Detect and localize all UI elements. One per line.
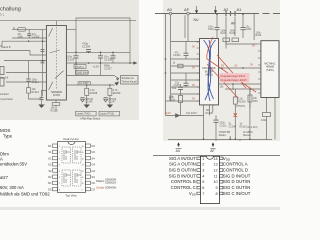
- svg-text:SIG B OUT/IN: SIG B OUT/IN: [169, 168, 196, 173]
- wire box to x76: [66, 28, 76, 30]
- vertical drop x226: [225, 17, 227, 49]
- diode D mid: [176, 114, 180, 118]
- boxed value label 3: [78, 82, 91, 85]
- svg-text:R1312: R1312: [32, 91, 40, 94]
- svg-text:(Hand B: (Hand B: [1, 45, 11, 49]
- bottom scan band: [0, 207, 280, 210]
- svg-text:S3: S3: [92, 175, 96, 179]
- boxed value label 1: [74, 65, 86, 69]
- svg-text:2: 2: [59, 152, 60, 154]
- right scan gray block: [163, 0, 280, 141]
- svg-text:schaltet: schaltet: [0, 93, 9, 96]
- svg-text:C1247: C1247: [109, 100, 117, 103]
- svg-text:AF: AF: [231, 22, 235, 26]
- svg-text:C250: C250: [246, 28, 252, 31]
- svg-text:VSS: VSS: [189, 191, 196, 197]
- svg-text:(Koa 924): (Koa 924): [247, 126, 258, 129]
- pin numbers right: [213, 157, 217, 196]
- notch: [68, 142, 75, 145]
- svg-text:10: 10: [213, 180, 217, 184]
- red OV labels: [192, 46, 195, 101]
- svg-text:C1304: C1304: [82, 45, 91, 49]
- capacitor C105: [185, 73, 187, 83]
- svg-text:0V: 0V: [192, 46, 195, 49]
- svg-text:4: 4: [202, 174, 204, 178]
- svg-text:5: 5: [202, 180, 204, 184]
- svg-text:D4: D4: [92, 144, 96, 148]
- package body: [58, 142, 86, 193]
- svg-text:AF: AF: [184, 7, 190, 12]
- capacitor on G3 wire: [40, 97, 44, 99]
- frame left vertical: [165, 14, 167, 116]
- svg-text:D3: D3: [48, 187, 52, 191]
- vertical x233: [232, 84, 234, 90]
- capacitor 100n top: [215, 27, 220, 29]
- switch S1 in U1: [49, 28, 53, 37]
- DIP pins left: [53, 144, 91, 191]
- svg-text:Top View: Top View: [65, 194, 77, 198]
- svg-text:SIG C IN/OUT: SIG C IN/OUT: [223, 191, 251, 196]
- svg-text:MOS: MOS: [0, 128, 10, 133]
- svg-text:R107: R107: [191, 112, 198, 115]
- svg-text:A0: A0: [167, 7, 173, 12]
- svg-text:R1309: R1309: [238, 100, 246, 103]
- bottom rail: [168, 139, 272, 141]
- svg-text:+12V: +12V: [93, 65, 100, 69]
- junction dots bottom rail: [203, 138, 251, 140]
- arrow NU: [196, 6, 198, 11]
- wire y41.4 to U2: [171, 40, 200, 42]
- pinout notch: [206, 156, 213, 159]
- svg-text:47u/6,3: 47u/6,3: [75, 65, 84, 69]
- timbre label box: [121, 76, 139, 85]
- svg-text:D1: D1: [48, 144, 52, 148]
- separator rule: [153, 155, 280, 157]
- resistor R106: [179, 95, 183, 102]
- svg-text:G4: G4: [92, 163, 96, 167]
- svg-text:R2398: R2398: [90, 91, 98, 95]
- svg-text:NC: NC: [48, 181, 52, 185]
- svg-text:7: 7: [202, 192, 204, 196]
- capacitor C1247: [104, 98, 108, 102]
- svg-text:12: 12: [82, 171, 84, 173]
- wire top input: [12, 28, 46, 30]
- svg-text:4: 4: [59, 165, 60, 167]
- svg-text:(74HC): (74HC): [266, 69, 274, 72]
- svg-text:15: 15: [82, 152, 84, 154]
- svg-text:entdioden:35V: entdioden:35V: [0, 161, 27, 166]
- capacitor C1302: [28, 29, 30, 33]
- svg-text:+Flip-Flop Modul: +Flip-Flop Modul: [80, 117, 100, 121]
- svg-text:D2: D2: [48, 175, 52, 179]
- svg-text:SIG D IN/OUT: SIG D IN/OUT: [223, 173, 251, 178]
- svg-text:9: 9: [215, 186, 217, 190]
- resistor mid 2: [232, 38, 239, 42]
- svg-text:(4066): (4066): [205, 74, 212, 77]
- svg-text:5: 5: [59, 171, 60, 173]
- AX arrow: [177, 142, 180, 145]
- svg-text:R247: R247: [221, 32, 227, 35]
- svg-text:R1310: R1310: [51, 109, 59, 112]
- wire vertical bus: [42, 30, 44, 97]
- wire U3 bottom: [249, 89, 251, 140]
- resistor R1309 col: [233, 97, 237, 104]
- node dots right schematic: [165, 13, 244, 74]
- svg-text:A1: A1: [237, 7, 243, 12]
- svg-text:7: 7: [59, 183, 60, 185]
- svg-text:0V: 0V: [235, 65, 238, 68]
- node dots left schematic: [28, 40, 131, 85]
- capacitor 10u top: [241, 27, 246, 29]
- wire U1 bottom: [55, 100, 57, 103]
- svg-text:8: 8: [215, 192, 217, 196]
- DIP internal fets: [62, 147, 81, 186]
- svg-text:CONTROL D: CONTROL D: [223, 168, 248, 173]
- page background: [0, 0, 280, 210]
- AF arrow: [212, 142, 215, 145]
- red diode: [233, 113, 237, 116]
- svg-text:G3: G3: [92, 169, 96, 173]
- left bus vertical: [170, 41, 172, 101]
- svg-text:NC: NC: [92, 150, 96, 154]
- left scan gray block: [0, 0, 139, 120]
- capacitor C1305: [98, 55, 103, 57]
- svg-text:CONTROL A: CONTROL A: [223, 162, 248, 167]
- rail 3: [66, 84, 114, 86]
- wires into U3 top: [226, 42, 258, 44]
- vertical drop x217: [216, 14, 218, 27]
- arrow AF mid: [215, 6, 217, 11]
- vertical drop x243: [242, 14, 244, 27]
- wire input row5: [4, 60, 46, 62]
- pinout IC body U4: [200, 156, 219, 203]
- wire input row2: [12, 37, 47, 39]
- svg-text:S1: S1: [48, 150, 52, 154]
- wire top bend: [76, 18, 130, 63]
- svg-text:Lautst./TV(2): Lautst./TV(2): [100, 113, 114, 116]
- svg-text:OTM/TS: OTM/TS: [236, 105, 245, 108]
- svg-text:Cerdip: Cerdip: [96, 186, 105, 190]
- svg-text:9: 9: [82, 189, 83, 191]
- svg-text:C1246: C1246: [85, 100, 93, 103]
- rail A right of U1: [66, 51, 130, 53]
- svg-text:C1248: C1248: [229, 125, 237, 128]
- svg-text:S2: S2: [48, 169, 52, 173]
- svg-text:atz7: atz7: [0, 175, 9, 180]
- svg-text:NU: NU: [194, 18, 199, 22]
- wire to ground G3: [42, 91, 47, 98]
- svg-text:13: 13: [213, 163, 217, 167]
- svg-text:Timbre-Kanal: Timbre-Kanal: [122, 80, 137, 83]
- svg-text:0V: 0V: [192, 84, 195, 87]
- svg-text:Doppelanzeige SW-A: Doppelanzeige SW-A: [221, 74, 246, 78]
- wire x254: [253, 14, 255, 41]
- svg-text:D3: D3: [92, 187, 96, 191]
- svg-text:C1305: C1305: [104, 58, 113, 62]
- vertical x250: [249, 89, 251, 95]
- U3 pin stubs: [258, 43, 261, 45]
- svg-text:R1308: R1308: [206, 112, 214, 115]
- svg-text:0V: 0V: [221, 65, 224, 68]
- top rail: [155, 13, 252, 15]
- rail B right of U1: [66, 62, 134, 64]
- DIP pins right: [86, 144, 91, 147]
- capacitor C1246: [81, 98, 85, 102]
- svg-text:14: 14: [82, 158, 84, 160]
- svg-text:SIG A OUT/IN: SIG A OUT/IN: [169, 162, 196, 167]
- vertical drop x235: [234, 17, 236, 37]
- capacitor on bus 2: [41, 60, 45, 62]
- DIP pin labels left: [48, 144, 52, 191]
- svg-text:10: 10: [82, 183, 84, 185]
- svg-text:SMD 94V-0: SMD 94V-0: [77, 71, 90, 74]
- tick marks: [225, 11, 227, 16]
- pin stubs table: [197, 157, 223, 195]
- svg-text:R106: R106: [169, 98, 176, 101]
- svg-text:0V: 0V: [252, 45, 255, 48]
- wire input row3: [2, 40, 47, 42]
- svg-text:SIG C OUT/IN: SIG C OUT/IN: [223, 185, 250, 190]
- red signal lines: [207, 37, 256, 98]
- svg-text:16: 16: [82, 146, 84, 148]
- svg-text:2: 2: [202, 163, 204, 167]
- resistor mid 1: [223, 38, 230, 42]
- svg-text:DI DN: DI DN: [53, 94, 60, 97]
- wire rail drop 1: [75, 63, 77, 76]
- capacitor on bus: [41, 49, 45, 51]
- svg-text:Stereo: Stereo: [243, 134, 251, 137]
- svg-text:G2: G2: [48, 163, 52, 167]
- ground G1: [84, 105, 90, 109]
- svg-text:1 L: 1 L: [0, 13, 5, 17]
- op IC U1 box SD5000: [46, 26, 66, 101]
- wire input row4: [0, 51, 47, 56]
- wire from A0 circle: [170, 15, 172, 42]
- svg-text:3: 3: [202, 169, 204, 173]
- DIP pin labels right: [92, 144, 96, 191]
- inductor L top: [18, 28, 27, 32]
- svg-text:NC: NC: [92, 181, 96, 185]
- svg-text:VDD: VDD: [223, 156, 231, 162]
- U2 pin wires: [171, 58, 200, 60]
- wire left stub: [0, 41, 2, 46]
- cap 220n C1311: [215, 116, 217, 120]
- connector stub box1: [0, 67, 4, 75]
- capacitor C1304: [86, 49, 91, 51]
- junction dots mid: [221, 67, 251, 90]
- resistor R1310: [52, 103, 60, 106]
- wire y68: [219, 67, 261, 69]
- svg-text:R248: R248: [230, 32, 236, 35]
- wire input row7: [6, 81, 47, 83]
- svg-text:SIG B IN/OUT: SIG B IN/OUT: [169, 173, 197, 178]
- svg-text:SIG A IN/OUT: SIG A IN/OUT: [169, 156, 196, 161]
- svg-text:CONTROL B: CONTROL B: [171, 179, 196, 184]
- capacitor C1303: [74, 55, 79, 57]
- svg-text:Modul: Modul: [219, 134, 226, 137]
- svg-text:Plastic: Plastic: [96, 179, 105, 183]
- svg-text:0V: 0V: [192, 98, 195, 101]
- wire y89: [225, 88, 261, 90]
- U3 IC box 74HC4066: [261, 41, 279, 98]
- svg-text:C1311: C1311: [220, 124, 228, 127]
- svg-text:0V: 0V: [192, 67, 195, 70]
- svg-text:60V, 300 mA: 60V, 300 mA: [0, 185, 24, 190]
- svg-text:C246: C246: [208, 28, 214, 31]
- svg-text:f geschaltet: f geschaltet: [0, 98, 13, 101]
- svg-text:13: 13: [82, 165, 84, 167]
- svg-text:AF: AF: [210, 149, 214, 153]
- svg-text:Dual-In-Line: Dual-In-Line: [63, 137, 79, 141]
- U2 IC box MC14066: [200, 39, 219, 105]
- svg-text:1: 1: [202, 157, 204, 161]
- svg-text:S4: S4: [92, 156, 96, 160]
- svg-text:11: 11: [82, 177, 84, 179]
- vertical from AF: [184, 15, 186, 38]
- svg-text:R2399: R2399: [113, 91, 121, 95]
- chain x28.5: cap + resistor to ground: [28, 61, 30, 79]
- capacitor 10u left mid: [178, 86, 183, 88]
- boxed value label 2: [76, 71, 89, 75]
- resistor below U3: [263, 113, 271, 117]
- wire input row6: [6, 72, 47, 74]
- resistor R2398: [85, 88, 89, 95]
- label box bottom 1: [76, 111, 97, 116]
- svg-text:Lautst./TV(1): Lautst./TV(1): [77, 113, 91, 116]
- U2 bottom wires: [203, 105, 205, 140]
- svg-text:C1307: C1307: [104, 66, 112, 70]
- svg-text:Doppelanzeige LED-Pr: Doppelanzeige LED-Pr: [221, 78, 248, 82]
- svg-text:A2: A2: [224, 7, 230, 12]
- svg-text:hältlich als SMD und TO92: hältlich als SMD und TO92: [0, 192, 50, 197]
- svg-text:C1304: C1304: [173, 54, 181, 57]
- svg-text:SD5001N: SD5001N: [105, 181, 116, 185]
- switch S3 in U1: [55, 71, 64, 79]
- U2 pin stubs: [197, 42, 261, 101]
- svg-text:6: 6: [202, 186, 204, 190]
- connector stub box2: [0, 78, 4, 86]
- svg-text:8: 8: [59, 189, 60, 191]
- svg-text:100n: 100n: [18, 36, 24, 39]
- red 0V labels mid: [221, 64, 253, 68]
- svg-text:100k: 100k: [261, 119, 267, 122]
- wire mid horizontal: [166, 115, 204, 117]
- svg-text:1: 1: [59, 146, 60, 148]
- resistor on y66: [178, 64, 183, 68]
- svg-text:R249: R249: [256, 34, 262, 37]
- svg-text:12: 12: [213, 169, 217, 173]
- svg-text:Type: Type: [3, 134, 13, 139]
- svg-text:G1: G1: [48, 156, 52, 160]
- DIP pin numbers inside: [59, 146, 84, 191]
- svg-text:10u: 10u: [172, 87, 177, 90]
- svg-text:14: 14: [213, 157, 217, 161]
- node circle A0: [169, 12, 172, 15]
- svg-text:AX: AX: [176, 149, 181, 153]
- resistor R2399: [108, 88, 112, 95]
- svg-text:C1314: C1314: [32, 81, 40, 84]
- pink highlight label: [220, 73, 250, 83]
- rail 2: [66, 75, 114, 77]
- svg-text:SD5000: SD5000: [51, 90, 62, 94]
- blue signal curves: [204, 40, 216, 101]
- svg-text:+12V: +12V: [165, 111, 171, 115]
- wire rail drop 2: [100, 63, 102, 76]
- wires between U2 and U3: [219, 68, 261, 108]
- wire right frame: [274, 98, 276, 140]
- svg-text:0V: 0V: [250, 64, 253, 67]
- wire box top pin: [56, 21, 58, 26]
- wire AF down: [187, 15, 189, 42]
- svg-text:CONTROL C: CONTROL C: [171, 185, 196, 190]
- svg-text:SIG D OUT/IN: SIG D OUT/IN: [223, 179, 250, 184]
- title rule: [0, 20, 136, 22]
- ground G2: [107, 105, 113, 109]
- svg-text:6: 6: [59, 177, 60, 179]
- svg-text:C1302: C1302: [32, 35, 40, 39]
- node circle AF: [187, 12, 190, 15]
- pin labels right: [223, 156, 251, 196]
- capacitor C1307b: [111, 55, 116, 57]
- svg-text:11: 11: [214, 174, 218, 178]
- capacitor C1304b: [185, 41, 187, 53]
- svg-text:C1303: C1303: [66, 58, 75, 62]
- svg-text:SD5400N: SD5400N: [105, 186, 116, 190]
- svg-text:Hand B: Hand B: [0, 77, 9, 80]
- svg-text:3: 3: [59, 158, 60, 160]
- svg-text:PR2: PR2: [253, 100, 258, 103]
- label box bottom 2: [99, 111, 120, 116]
- arrow to timbre box: [114, 76, 119, 79]
- wire y84: [219, 83, 261, 85]
- switch S4 in U1: [49, 82, 53, 90]
- ground G3: [41, 100, 43, 105]
- svg-text:D1 D450: D1 D450: [79, 82, 89, 85]
- dashed line inside U1: [56, 27, 58, 90]
- pin labels left: [169, 156, 197, 197]
- pin numbers left: [202, 157, 204, 196]
- switch S2 in U1: [50, 50, 60, 53]
- resistor x250: [248, 95, 252, 102]
